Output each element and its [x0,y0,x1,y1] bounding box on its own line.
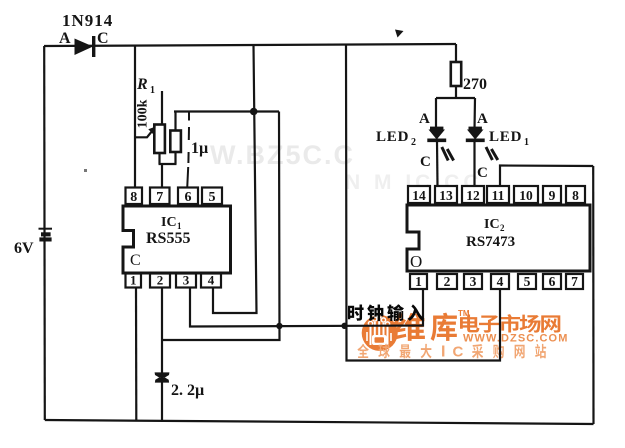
pin 1 IC1 bottom [126,273,142,288]
wire IC1 pin 2 to ground rail (through C2) [161,288,163,422]
battery 6V [39,229,53,242]
svg-text:5: 5 [209,190,216,205]
svg-text:LED: LED [489,129,522,145]
svg-text:6V: 6V [14,240,34,257]
svg-text:2: 2 [157,273,164,288]
svg-text:LED: LED [376,129,409,145]
svg-text:WWW.DZSC.COM: WWW.DZSC.COM [463,332,568,344]
watermark logo circle [362,314,398,351]
watermark quanqiu zuida IC caigou wangzhan [357,344,546,361]
label clock input (shi zhong shu ru) [348,304,424,321]
op IC2 RS7473 body [407,205,590,271]
pin 2 IC2 bottom [437,274,457,289]
pin 5 IC1 [202,188,222,206]
svg-text:2. 2µ: 2. 2µ [171,382,204,399]
svg-text:1: 1 [150,85,155,96]
svg-text:7: 7 [156,190,163,205]
svg-text:3: 3 [183,273,190,288]
svg-text:RS7473: RS7473 [466,234,515,250]
resistor R1 100k potentiometer [134,125,165,154]
ghost watermark smudge [210,140,483,194]
svg-text:8: 8 [572,188,579,203]
wire LED1 cathode to IC2 pin 12 [473,141,475,186]
svg-text:2: 2 [444,274,451,289]
svg-text:A: A [59,30,71,47]
svg-text:13: 13 [439,188,453,203]
resistor R3 270 [451,62,461,86]
wire right rail [592,166,594,424]
pin 7 IC1 [150,188,170,206]
wire supply to IC1 pin 4 (reset loop) [213,45,257,313]
wire R2 top lead to node rail [174,112,176,132]
svg-text:I: I [441,344,445,361]
svg-text:10: 10 [519,188,533,203]
pin 5 IC2 bottom [518,274,536,289]
svg-text:270: 270 [463,76,487,93]
pin 8 IC2 top [566,186,585,203]
svg-text:12: 12 [466,188,480,203]
LED1 [466,127,498,160]
node junction supply/node-rail crossing [250,108,258,116]
wire clock line IC1 pin 3 to IC2 pin 1 [190,288,423,327]
wire R1 top open lead [161,91,163,125]
svg-text:IC: IC [161,215,177,230]
pin 6 IC1 [178,188,198,206]
op IC1 RS555 body [123,206,231,273]
wire IC1 pin 1 to ground rail [135,288,138,421]
svg-text:C: C [453,344,464,361]
wire trigger loop to IC1 pin 2 [163,112,280,341]
wire node rail y111 (R2 top / C1 / trigger) [174,110,279,112]
capacitor C2 2.2u [155,372,170,382]
svg-text:2: 2 [500,223,505,233]
resistor R2 [170,131,181,153]
wire bottom ground rail [45,420,594,424]
wire supply to IC2 pin 4 loop [346,45,500,361]
stray mark arrow [395,30,404,38]
pin 4 IC2 bottom [491,274,509,289]
svg-text:9: 9 [549,188,556,203]
wire resistor R3 leads and LED branch tee [436,44,475,130]
pin 9 IC2 top [543,186,561,203]
watermark weiku text [393,313,457,341]
wire supply to IC1 pin 8 [134,46,136,189]
wire IC2 pin 11 to right rail [500,166,593,188]
svg-text:11: 11 [492,188,505,203]
svg-text:8: 8 [130,190,137,205]
svg-text:4: 4 [208,273,215,288]
svg-text:6: 6 [185,190,192,205]
pin 2 IC1 bottom [150,273,170,288]
wire LED2 cathode to IC2 pin 13 [436,141,439,186]
node junction trigger/clock crossing [276,323,282,329]
svg-text:5: 5 [524,274,531,289]
svg-text:6: 6 [549,274,556,289]
pin 13 IC2 top [435,186,457,203]
svg-text:100k: 100k [136,99,151,128]
LED2 [427,127,453,161]
pin 8 IC1 [126,188,143,206]
svg-text:A: A [419,111,430,127]
svg-text:IC: IC [484,217,500,232]
svg-text:3: 3 [470,274,477,289]
diode D1 1N914 [75,36,94,57]
wire R1/R2 bottom leads to IC1 pin 7 [159,152,177,188]
wire left rail (battery branch) [43,46,46,420]
svg-text:W.BZ5C.C: W.BZ5C.C [210,140,355,170]
pin 4 IC1 bottom [201,273,221,288]
pin 12 IC2 top [462,186,484,203]
svg-text:C: C [97,30,109,47]
svg-text:A: A [477,111,488,127]
svg-text:C: C [420,154,431,170]
svg-text:1: 1 [130,273,137,288]
svg-text:1: 1 [415,274,422,289]
svg-text:2: 2 [411,137,416,148]
pin 10 IC2 top [514,186,538,203]
pin 11 IC2 top [487,186,509,203]
svg-text:1: 1 [524,137,529,148]
stray speck [84,169,87,172]
svg-text:R: R [136,76,148,93]
pin 3 IC2 bottom [464,274,482,289]
svg-text:O: O [410,252,422,271]
svg-text:RS555: RS555 [146,230,190,247]
svg-text:14: 14 [412,188,426,203]
pin 14 IC2 top [408,186,430,203]
watermark dianzi shichang wang [460,314,560,333]
wire top supply rail [44,44,456,46]
svg-text:4: 4 [497,274,504,289]
svg-text:C: C [477,165,488,181]
pin 7 IC2 bottom [566,274,583,289]
svg-text:7: 7 [571,274,578,289]
svg-text:C: C [130,252,141,269]
pin 3 IC1 bottom [176,273,196,288]
pin 6 IC2 bottom [543,274,561,289]
svg-text:1N914: 1N914 [62,11,113,30]
pin 1 IC2 bottom [410,274,427,289]
node junction clock input tap [341,323,347,329]
svg-text:1µ: 1µ [191,140,208,157]
capacitor C1 1u dashed lead to IC1 pin 6 [187,112,189,188]
